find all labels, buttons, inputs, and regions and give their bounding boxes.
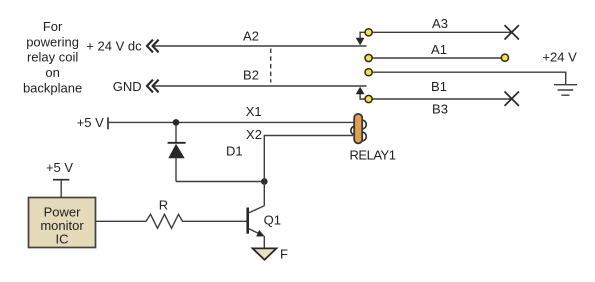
svg-text:X1: X1 [246, 104, 262, 119]
svg-text:+ 24 V dc: + 24 V dc [86, 38, 142, 53]
svg-text:B1: B1 [431, 79, 447, 94]
svg-text:For: For [43, 19, 63, 34]
svg-text:R: R [159, 198, 168, 213]
svg-text:A3: A3 [432, 16, 448, 31]
svg-text:on: on [45, 65, 59, 80]
svg-text:relay coil: relay coil [27, 50, 78, 65]
svg-text:X2: X2 [246, 127, 262, 142]
svg-text:F: F [280, 247, 288, 262]
svg-text:D1: D1 [226, 144, 243, 159]
svg-text:A1: A1 [431, 42, 447, 57]
svg-text:+5 V: +5 V [46, 160, 73, 175]
svg-text:RELAY1: RELAY1 [350, 147, 396, 162]
svg-text:GND: GND [113, 79, 142, 94]
svg-text:A2: A2 [243, 28, 259, 43]
svg-text:Q1: Q1 [264, 213, 281, 228]
svg-text:backplane: backplane [23, 81, 82, 96]
svg-text:B3: B3 [432, 102, 448, 117]
svg-text:B2: B2 [243, 68, 259, 83]
svg-text:IC: IC [56, 231, 69, 246]
svg-text:powering: powering [26, 34, 79, 49]
svg-text:+5 V: +5 V [77, 115, 104, 130]
svg-text:+24 V: +24 V [542, 50, 577, 65]
